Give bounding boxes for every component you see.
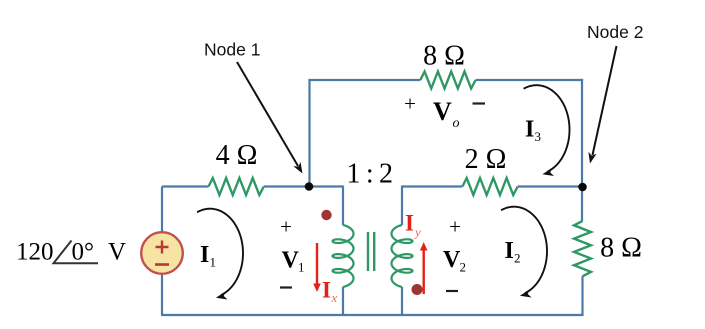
svg-text:+: + [449, 215, 461, 239]
voltage source VS 120V [141, 232, 183, 274]
svg-text:0°: 0° [72, 239, 95, 266]
arrow to node 2 [586, 46, 617, 164]
resistor 2ohm [462, 178, 517, 195]
current arrow Iy [405, 211, 428, 295]
loop current I3 arc [524, 85, 570, 178]
svg-text:I: I [200, 242, 209, 268]
arrow to node 1 [237, 62, 306, 176]
svg-text:+: + [280, 215, 292, 239]
svg-text:1: 1 [298, 260, 305, 275]
label + V1 - [280, 215, 305, 288]
resistor 8ohm right [574, 221, 591, 276]
wire middle right (right coil to node 2) [402, 185, 583, 187]
svg-text:2 Ω: 2 Ω [465, 144, 507, 175]
svg-text:o: o [453, 116, 460, 131]
svg-text:+: + [404, 92, 416, 116]
wire left coil risers [342, 186, 344, 316]
svg-text:2: 2 [514, 251, 521, 266]
wire bottom rail [161, 314, 584, 316]
svg-text:y: y [413, 225, 421, 240]
svg-text:I: I [405, 211, 414, 236]
svg-text:V: V [443, 247, 461, 273]
svg-text:120: 120 [16, 239, 54, 266]
transformer T1 core [368, 232, 374, 271]
svg-text:Node 1: Node 1 [204, 40, 260, 60]
svg-text:3: 3 [535, 129, 542, 144]
transformer dot mark secondary [412, 284, 423, 295]
svg-text:I: I [505, 238, 514, 264]
wire right branch top [581, 79, 583, 221]
svg-text:V: V [282, 248, 300, 274]
wire top rail [308, 79, 583, 81]
svg-text:I: I [525, 117, 534, 143]
node 1 junction dot [305, 182, 314, 191]
svg-text:I: I [322, 278, 331, 303]
svg-text:V: V [433, 97, 452, 126]
resistor 8ohm top [420, 72, 475, 89]
node 2 junction dot [578, 183, 587, 192]
svg-text:4 Ω: 4 Ω [216, 140, 258, 171]
wire middle left (source top to node 1 to left coil) [162, 185, 343, 187]
svg-text:Node 2: Node 2 [587, 22, 643, 42]
wire right branch bottom [581, 276, 583, 316]
svg-text:2: 2 [460, 260, 467, 275]
label + V2 - [443, 215, 466, 292]
wire left branch [161, 187, 163, 316]
svg-text:1 : 2: 1 : 2 [347, 159, 395, 190]
label 120 angle 0 V [16, 239, 126, 266]
svg-text:V: V [108, 239, 126, 266]
wire right coil risers [401, 186, 403, 316]
loop current I1 arc [197, 209, 243, 302]
svg-text:x: x [331, 290, 338, 305]
svg-text:8 Ω: 8 Ω [423, 41, 465, 72]
transformer T1 secondary winding [392, 225, 413, 287]
label + Vo - [404, 92, 485, 132]
resistor 4ohm [209, 178, 264, 195]
transformer dot mark primary [321, 210, 331, 220]
current arrow Ix [313, 243, 337, 305]
svg-text:8 Ω: 8 Ω [600, 233, 642, 264]
loop current I2 arc [501, 207, 547, 300]
svg-text:1: 1 [210, 255, 217, 270]
wire node1 to top rail [308, 80, 310, 187]
transformer T1 primary winding [333, 225, 354, 287]
